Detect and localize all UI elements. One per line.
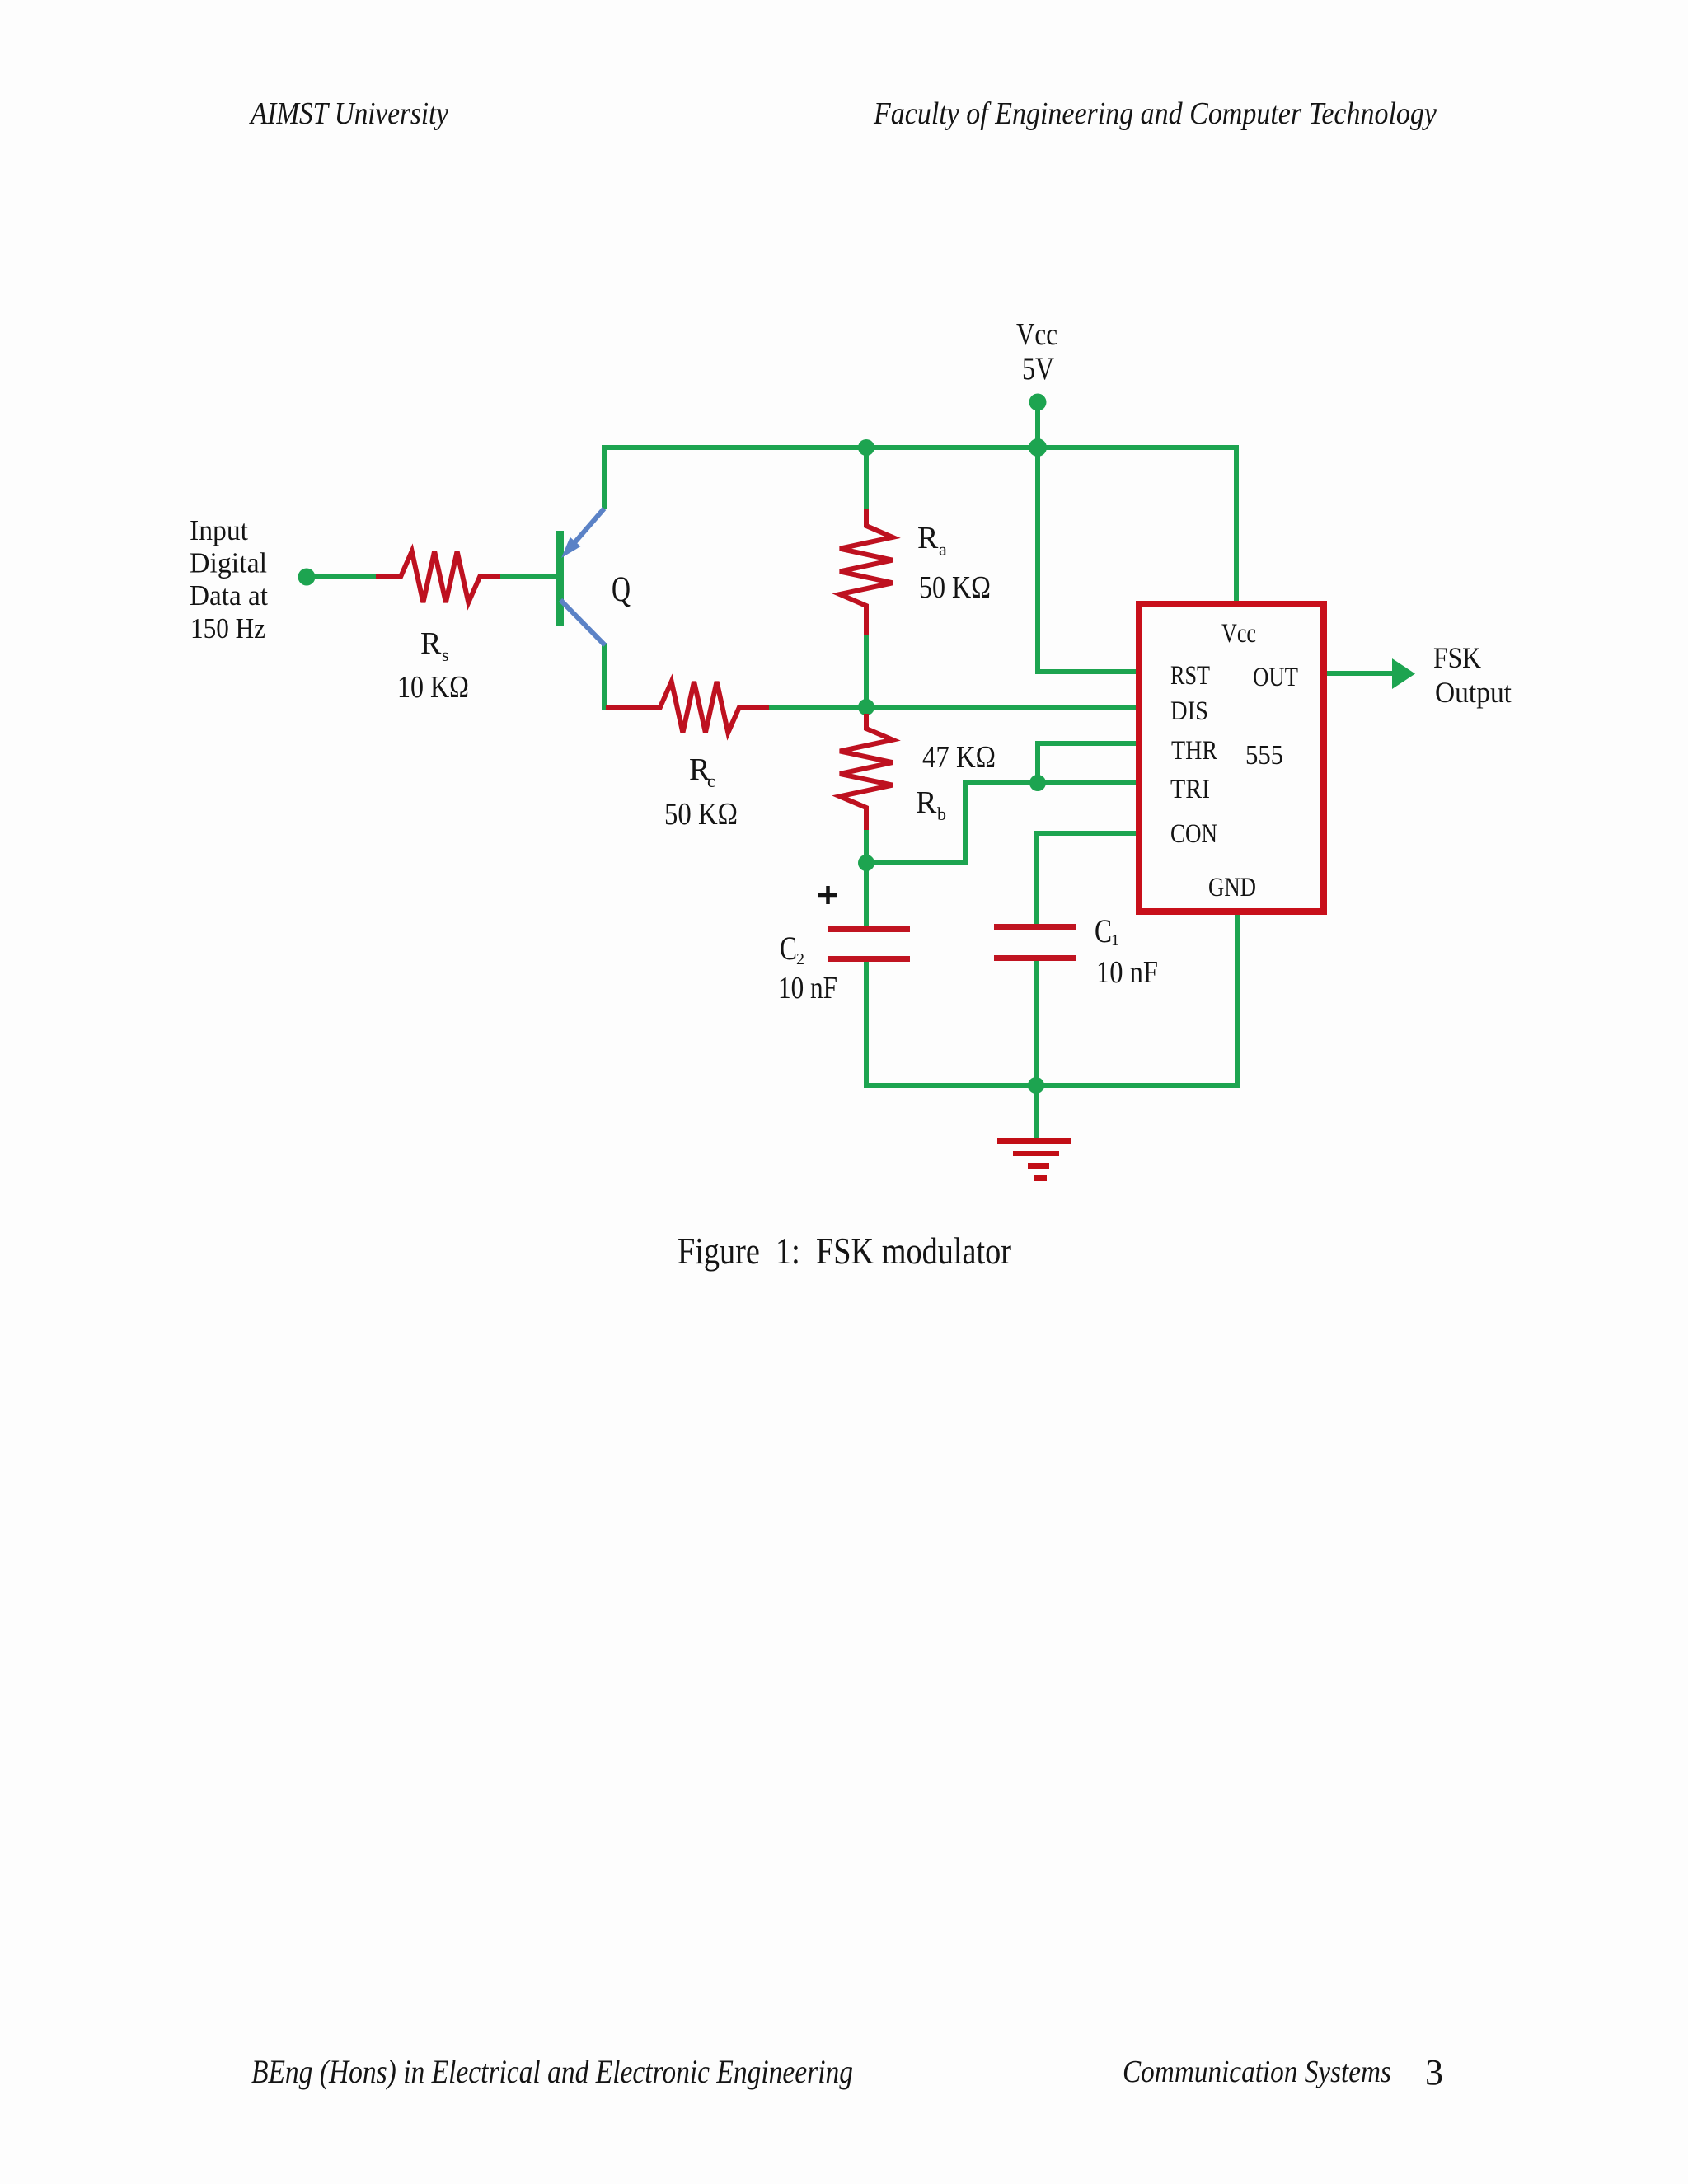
svg-text:GND: GND [1208, 873, 1256, 902]
svg-text:R: R [916, 785, 937, 820]
svg-text:Output: Output [1435, 676, 1512, 709]
svg-text:THR: THR [1171, 736, 1217, 766]
svg-text:10 nF: 10 nF [1096, 955, 1158, 990]
svg-text:Faculty of Engineering and Com: Faculty of Engineering and Computer Tech… [873, 96, 1437, 131]
svg-text:Vcc: Vcc [1221, 619, 1256, 649]
svg-text:Input: Input [190, 514, 248, 546]
svg-text:50 KΩ: 50 KΩ [664, 797, 738, 832]
svg-text:50 KΩ: 50 KΩ [919, 570, 991, 605]
svg-text:1: 1 [1111, 931, 1119, 949]
svg-text:Communication Systems: Communication Systems [1123, 2055, 1391, 2089]
svg-text:R: R [917, 521, 939, 555]
svg-text:CON: CON [1170, 819, 1217, 849]
svg-text:R: R [420, 626, 442, 661]
svg-text:Data at: Data at [190, 579, 268, 612]
svg-text:a: a [939, 539, 947, 560]
svg-text:C: C [1095, 912, 1112, 949]
svg-text:FSK: FSK [1433, 641, 1481, 674]
svg-text:C: C [780, 930, 797, 967]
svg-text:10 KΩ: 10 KΩ [397, 670, 469, 705]
svg-text:OUT: OUT [1253, 663, 1298, 692]
svg-text:c: c [707, 771, 715, 791]
svg-text:Digital: Digital [190, 547, 267, 579]
svg-text:2: 2 [796, 950, 804, 968]
svg-text:150 Hz: 150 Hz [190, 612, 265, 644]
svg-text:b: b [937, 804, 946, 824]
svg-text:555: 555 [1245, 740, 1283, 771]
svg-text:RST: RST [1170, 661, 1210, 691]
svg-text:Q: Q [612, 570, 631, 609]
svg-text:47 KΩ: 47 KΩ [922, 740, 996, 775]
svg-text:5V: 5V [1022, 351, 1054, 387]
svg-text:TRI: TRI [1170, 775, 1210, 804]
svg-text:Vcc: Vcc [1016, 317, 1057, 352]
svg-text:AIMST University: AIMST University [248, 96, 448, 131]
svg-text:3: 3 [1425, 2052, 1443, 2093]
svg-text:DIS: DIS [1170, 696, 1208, 726]
svg-text:BEng (Hons) in Electrical and: BEng (Hons) in Electrical and Electronic… [251, 2053, 853, 2090]
svg-text:Figure 1: FSK modulator: Figure 1: FSK modulator [678, 1230, 1011, 1272]
svg-text:s: s [442, 644, 449, 665]
svg-text:10 nF: 10 nF [778, 971, 837, 1005]
